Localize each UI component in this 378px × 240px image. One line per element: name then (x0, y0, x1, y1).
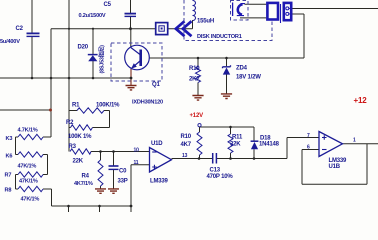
svg-text:D20: D20 (78, 45, 89, 51)
svg-text:470P 10%: 470P 10% (207, 174, 234, 180)
svg-text:5u/400V: 5u/400V (0, 39, 20, 45)
svg-text:155uH: 155uH (197, 19, 214, 25)
svg-text:1N4148: 1N4148 (259, 142, 280, 148)
svg-text:R7: R7 (5, 173, 12, 179)
svg-text:U1D: U1D (151, 141, 163, 147)
svg-text:47K/1%: 47K/1% (18, 164, 37, 170)
svg-text:4K7/1%: 4K7/1% (74, 181, 93, 187)
svg-text:K3: K3 (6, 136, 13, 142)
svg-text:4.7K/1%: 4.7K/1% (18, 128, 38, 134)
svg-text:R2: R2 (66, 120, 74, 126)
svg-text:2K2: 2K2 (189, 77, 200, 83)
svg-text:C2: C2 (16, 26, 24, 32)
svg-text:32K: 32K (230, 142, 241, 148)
svg-text:+12V: +12V (190, 113, 204, 119)
svg-text:R11: R11 (232, 135, 243, 141)
svg-text:R19: R19 (189, 66, 200, 72)
svg-text:C0: C0 (119, 169, 127, 175)
svg-text:C13: C13 (210, 168, 221, 174)
svg-text:ZD4: ZD4 (236, 66, 248, 72)
svg-text:R3: R3 (69, 144, 77, 150)
svg-text:7: 7 (307, 133, 310, 139)
svg-text:13: 13 (182, 153, 188, 159)
svg-text:K6: K6 (6, 154, 13, 160)
svg-text:DISK INDUCTOR1: DISK INDUCTOR1 (197, 34, 242, 40)
svg-text:Q1: Q1 (152, 82, 160, 88)
svg-text:+12: +12 (354, 96, 368, 105)
svg-text:4K7: 4K7 (181, 142, 192, 148)
svg-text:LM339: LM339 (150, 179, 169, 185)
svg-text:R1: R1 (72, 103, 80, 109)
svg-text:47K/1%: 47K/1% (21, 197, 40, 203)
svg-text:C5: C5 (104, 2, 112, 8)
svg-text:(8SJ53阻尼): (8SJ53阻尼) (98, 45, 106, 74)
svg-text:100K 1%: 100K 1% (68, 134, 92, 140)
svg-text:100K/1%: 100K/1% (96, 103, 120, 109)
svg-text:1: 1 (353, 138, 356, 144)
svg-text:R4: R4 (82, 174, 90, 180)
svg-text:10: 10 (134, 148, 140, 154)
svg-text:33P: 33P (118, 179, 128, 185)
svg-text:18V 1/2W: 18V 1/2W (236, 75, 261, 81)
svg-text:22K: 22K (73, 159, 84, 165)
svg-text:0.2u/1500V: 0.2u/1500V (79, 13, 106, 19)
svg-text:47K/1%: 47K/1% (19, 179, 38, 185)
svg-text:R8: R8 (5, 188, 12, 194)
svg-text:U1B: U1B (329, 164, 341, 170)
svg-text:IXDH30N120: IXDH30N120 (132, 100, 163, 106)
svg-text:6: 6 (307, 145, 310, 151)
svg-text:R10: R10 (181, 134, 192, 140)
svg-text:11: 11 (134, 160, 139, 166)
